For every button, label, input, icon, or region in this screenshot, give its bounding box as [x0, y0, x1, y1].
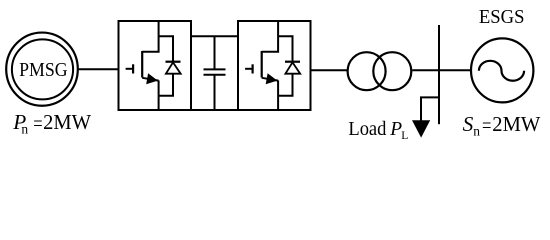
- IGBT Q1 gate lead: [126, 68, 133, 70]
- IGBT Q2 emitter vertical: [277, 80, 279, 110]
- capacitor C1 top plate: [204, 68, 226, 70]
- IGBT Q1 collector step: [142, 21, 158, 52]
- wire transformer to grid bus: [412, 69, 471, 71]
- IGBT Q2 emitter arrowhead: [266, 73, 278, 84]
- diode D1 top branch: [159, 36, 173, 61]
- DC bus top: [190, 35, 239, 37]
- DC bus bottom: [190, 109, 239, 111]
- load arrow head: [412, 120, 430, 137]
- transformer T1 secondary circle: [373, 52, 411, 90]
- svg-text:n: n: [473, 124, 480, 139]
- svg-text:Load: Load: [348, 118, 386, 140]
- bus bar node: [438, 25, 440, 124]
- generator G1 PMSG inner circle: [12, 39, 73, 99]
- IGBT Q1 emitter vertical: [158, 80, 160, 110]
- grid source ESGS circle: [471, 38, 533, 102]
- IGBT Q2 emitter line: [262, 78, 278, 81]
- diode D1 triangle: [166, 62, 181, 73]
- diode D2 cathode bar: [285, 61, 300, 63]
- svg-text:ESGS: ESGS: [479, 6, 525, 28]
- svg-text:L: L: [401, 130, 408, 142]
- diode D2 triangle: [285, 62, 300, 73]
- svg-text:=: =: [33, 111, 42, 135]
- grid source sine wave: [479, 61, 524, 81]
- svg-text:PMSG: PMSG: [19, 59, 68, 81]
- IGBT Q2 gate lead: [245, 68, 252, 70]
- IGBT Q2 channel bar: [261, 51, 263, 78]
- svg-text:=: =: [482, 113, 491, 137]
- generator G1 PMSG outer circle: [6, 33, 78, 106]
- diode D2 anode link: [278, 74, 292, 96]
- svg-text:2MW: 2MW: [492, 112, 541, 136]
- capacitor C1 top lead: [214, 36, 216, 68]
- IGBT Q2 collector step: [262, 21, 278, 52]
- IGBT Q1 emitter arrowhead: [146, 73, 158, 84]
- converter U1 box: [119, 21, 192, 110]
- svg-text:n: n: [21, 121, 28, 136]
- wire converter 2 to transformer: [311, 69, 349, 71]
- IGBT Q1 emitter line: [142, 78, 158, 81]
- diode D2 top branch: [278, 36, 292, 61]
- converter U2 box: [238, 21, 311, 110]
- IGBT Q1 channel bar: [141, 51, 143, 78]
- svg-text:2MW: 2MW: [43, 110, 92, 134]
- IGBT Q2 gate bar: [252, 64, 254, 73]
- svg-text:S: S: [463, 112, 474, 136]
- capacitor C1 bottom lead: [214, 76, 216, 111]
- transformer T1 primary circle: [348, 52, 386, 90]
- svg-text:P: P: [389, 118, 402, 140]
- diode D1 anode link: [159, 74, 173, 96]
- capacitor C1 bottom plate: [204, 74, 226, 76]
- diode D1 cathode bar: [166, 61, 181, 63]
- IGBT Q1 gate bar: [132, 64, 134, 73]
- load branch wire: [421, 97, 439, 122]
- wire PMSG to converter 1: [78, 68, 119, 70]
